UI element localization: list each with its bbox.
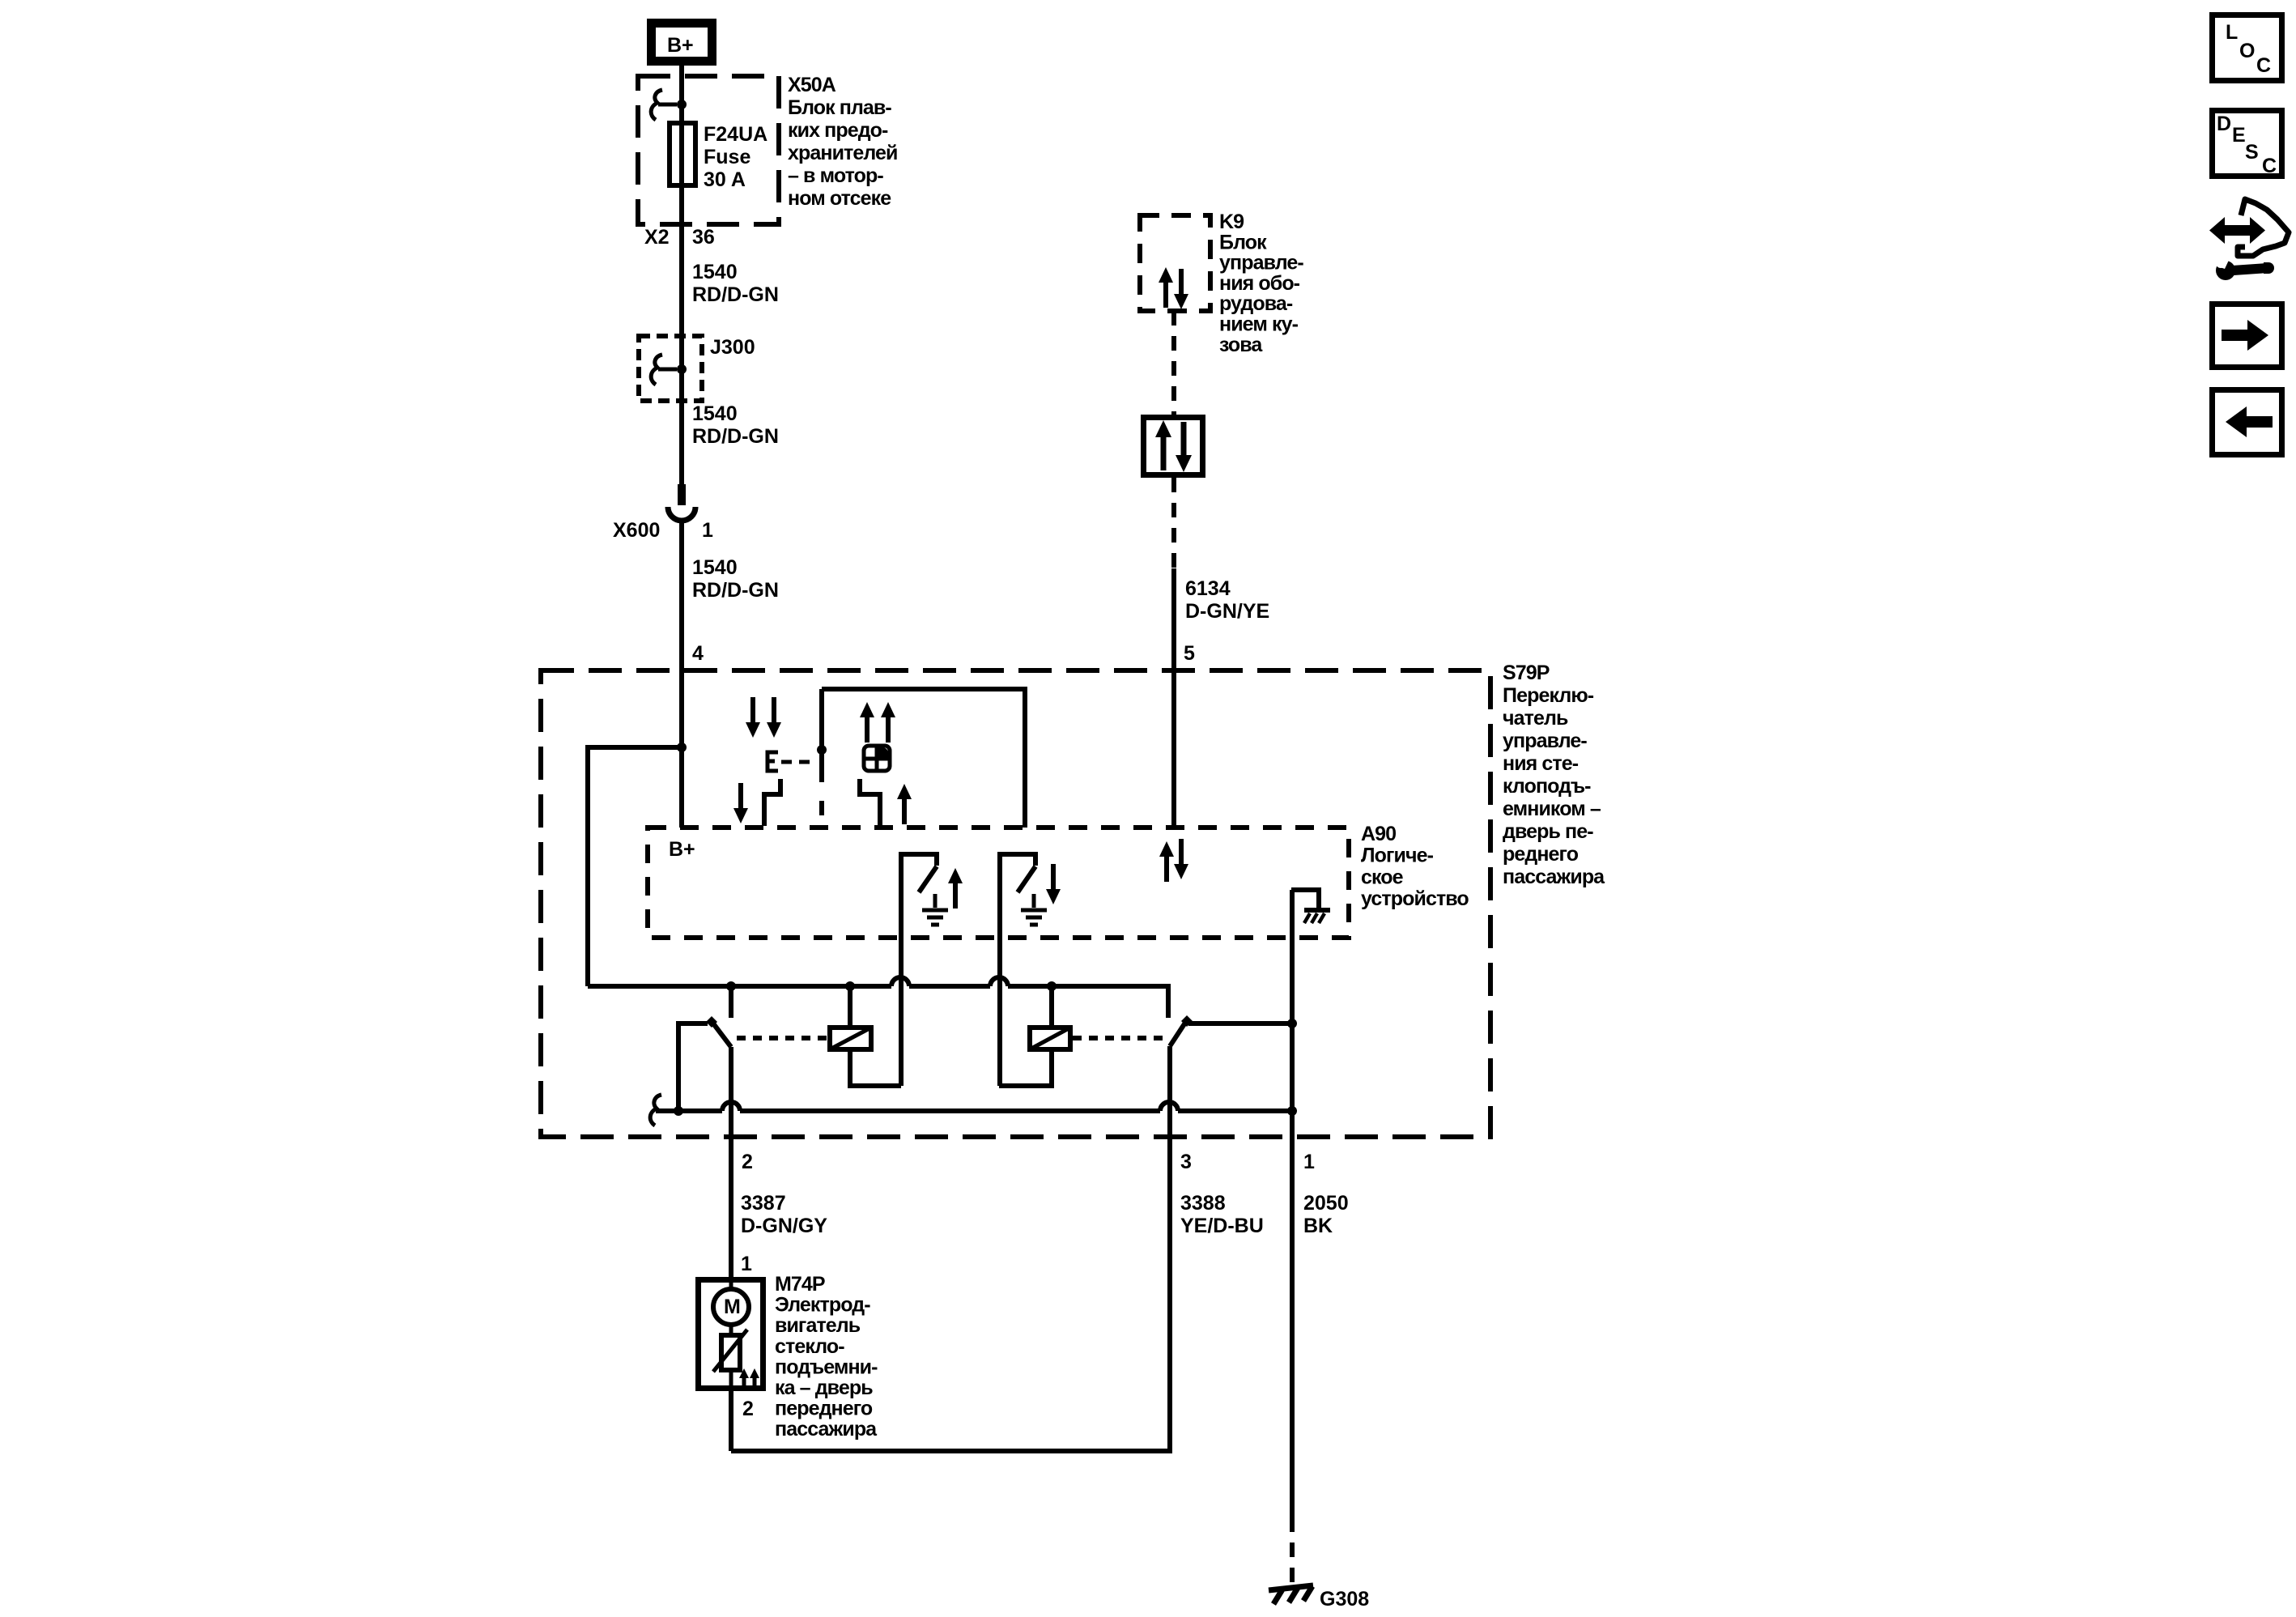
up arrow in symbol box [1155,420,1171,470]
svg-text:2050BK: 2050BK [1303,1192,1349,1237]
switch step contact up-side [860,779,880,826]
icon electrical information [2205,199,2289,280]
clip terminal in J300 [651,355,662,385]
svg-text:М74РЭлектрод-вигательстекло-по: М74РЭлектрод-вигательстекло-подъемни-ка … [775,1273,878,1440]
relay down coil [1030,1028,1070,1049]
left contact feed stub [729,986,733,1018]
wire clip to node J300 [658,368,677,372]
relay down dashed actuator link [1073,1036,1163,1040]
clip terminal in X50A [651,90,662,120]
double down arrows (close) [746,697,760,738]
svg-text:E: E [2232,124,2246,147]
motor M74P box [699,1280,763,1389]
svg-text:6134D-GN/YE: 6134D-GN/YE [1185,577,1269,623]
wire loop from switch common to A90 [822,689,1025,828]
icon forward arrow box [2213,304,2282,368]
ground G308 symbol [1269,1585,1313,1604]
svg-text:36: 36 [692,226,715,249]
double up arrows (open) [860,702,874,743]
wire switch common stem [819,689,824,782]
thermal protector diagonal [713,1330,747,1372]
svg-text:B+: B+ [669,838,695,861]
svg-text:1: 1 [741,1253,752,1275]
svg-text:X50AБлок плав-ких предо-хранит: X50AБлок плав-ких предо-хранителей– в мо… [788,74,898,210]
switch step contact down-side [764,779,780,826]
A90 up-driver switch wire [899,852,904,1086]
icon DESC box [2213,111,2282,178]
svg-text:X600: X600 [613,519,660,542]
svg-text:K9Блокуправле-ния обо-рудова-н: K9Блокуправле-ния обо-рудова-нием ку-зов… [1219,211,1303,356]
up arrow at pin5 input [1159,841,1174,882]
right contact pivot [1181,1015,1193,1027]
wire 6134 to S79P pin 5 [1171,568,1176,828]
dashed wire below symbol box [1171,478,1176,568]
svg-text:1: 1 [1303,1151,1315,1173]
svg-text:3387D-GN/GY: 3387D-GN/GY [741,1192,827,1237]
A90 up-driver ground [922,894,948,925]
node bus left contact [726,981,736,991]
svg-text:L: L [2226,21,2238,44]
A90 internal chassis ground hook [1291,890,1319,908]
fuse F24UA 30A [670,123,695,185]
A90 up-driver switch contact [901,854,937,892]
svg-text:1540RD/D-GN: 1540RD/D-GN [692,556,779,602]
wire clip to node [658,103,677,107]
single up arrow [897,784,912,824]
svg-text:S79PПереклю-чательуправле-ния: S79PПереклю-чательуправле-ния сте-клопод… [1503,662,1605,888]
svg-text:2: 2 [742,1151,753,1173]
right contact blade [1170,1023,1185,1046]
fuse block X50A enclosure [638,76,779,224]
relay down coil return [999,1049,1052,1086]
wire motor return [729,1391,733,1451]
dashed wire K9 to window symbol [1171,311,1176,415]
down arrow at pin5 input [1174,839,1188,879]
junction node B+ branch [677,743,687,752]
svg-text:A90Логиче-скоеустройство: A90Логиче-скоеустройство [1361,823,1469,910]
relay up coil feed [848,986,852,1028]
dashed link E to common [781,760,816,764]
A90 down-driver switch contact [1000,854,1035,892]
svg-text:1540RD/D-GN: 1540RD/D-GN [692,402,779,448]
right contact fixed arm [1188,1021,1292,1026]
switch S79P enclosure [541,670,1490,1137]
left contact pivot [706,1016,717,1028]
node ground bus left [674,1106,683,1116]
feed bus wire [588,977,1168,1018]
wire from X600 into S79P [679,522,684,828]
splice J300 enclosure [639,336,702,401]
svg-text:O: O [2239,40,2255,62]
manual knob contact E [767,752,778,771]
connector X600 male pin [678,484,686,505]
relay down coil feed [1049,986,1054,1028]
svg-text:G308: G308 [1320,1588,1369,1611]
down arrow at down-driver [1046,864,1061,904]
relay up dashed actuator link [737,1036,827,1040]
ground bus wire [656,1102,1292,1111]
A90 down-driver switch wire [997,852,1002,1086]
relay up coil [830,1028,871,1049]
svg-text:1: 1 [702,519,713,542]
power feed symbol B+ [652,23,712,62]
svg-text:F24UAFuse30 A: F24UAFuse30 A [704,123,767,191]
svg-text:3: 3 [1180,1151,1192,1173]
junction node in X50A [677,100,687,109]
motor thermal protector [721,1335,740,1370]
svg-text:J300: J300 [710,336,755,359]
svg-text:S: S [2245,141,2259,164]
single down arrow [733,783,748,823]
svg-text:C: C [2256,54,2271,77]
node bus left relay [845,981,855,991]
svg-text:3388YE/D-BU: 3388YE/D-BU [1180,1192,1264,1237]
wire from B+ to X600 [679,66,684,486]
wire to pin 2 and motor [729,1047,733,1279]
svg-text:D: D [2217,113,2231,135]
dashed mechanical link below common [819,801,824,815]
left contact fixed arm [678,1023,708,1111]
icon LOC box [2213,15,2282,81]
node ground contact arm [1287,1019,1297,1028]
relay up coil return [850,1049,901,1086]
svg-text:X2: X2 [644,226,670,249]
body control module K9 enclosure [1140,215,1210,311]
A90 chassis ground symbol [1304,908,1330,913]
icon back arrow box [2213,390,2282,455]
svg-text:5: 5 [1184,642,1195,665]
node ground bus right [1287,1106,1297,1116]
logic device A90 enclosure [648,828,1349,938]
ground wire 2050 [1290,890,1295,1517]
junction node switch common [817,745,827,755]
dashed ground wire to G308 [1290,1517,1295,1583]
connector X600 female cup [668,507,695,521]
window pane symbol [864,746,890,771]
svg-text:1540RD/D-GN: 1540RD/D-GN [692,261,779,306]
up arrow at up-driver [948,868,963,908]
ground bus clip terminal [650,1095,661,1126]
svg-text:B+: B+ [667,34,694,57]
down arrow in symbol box [1176,422,1192,472]
svg-text:M: M [724,1296,741,1318]
left contact blade [713,1023,731,1047]
svg-text:2: 2 [742,1398,754,1420]
wire to pin 3 [731,1046,1170,1451]
motor internal wire [729,1279,733,1391]
motor armature circle [713,1289,749,1325]
wire B+ branch to left rail [588,747,682,986]
svg-text:4: 4 [692,642,704,665]
svg-text:C: C [2262,155,2277,177]
window lift symbol box [1144,418,1203,475]
node bus right relay [1047,981,1057,991]
motor small up arrows [739,1368,749,1385]
window up arrow in K9 [1159,267,1173,308]
junction node in J300 [677,364,687,374]
window down arrow in K9 [1174,269,1188,309]
A90 down-driver ground [1021,894,1047,925]
